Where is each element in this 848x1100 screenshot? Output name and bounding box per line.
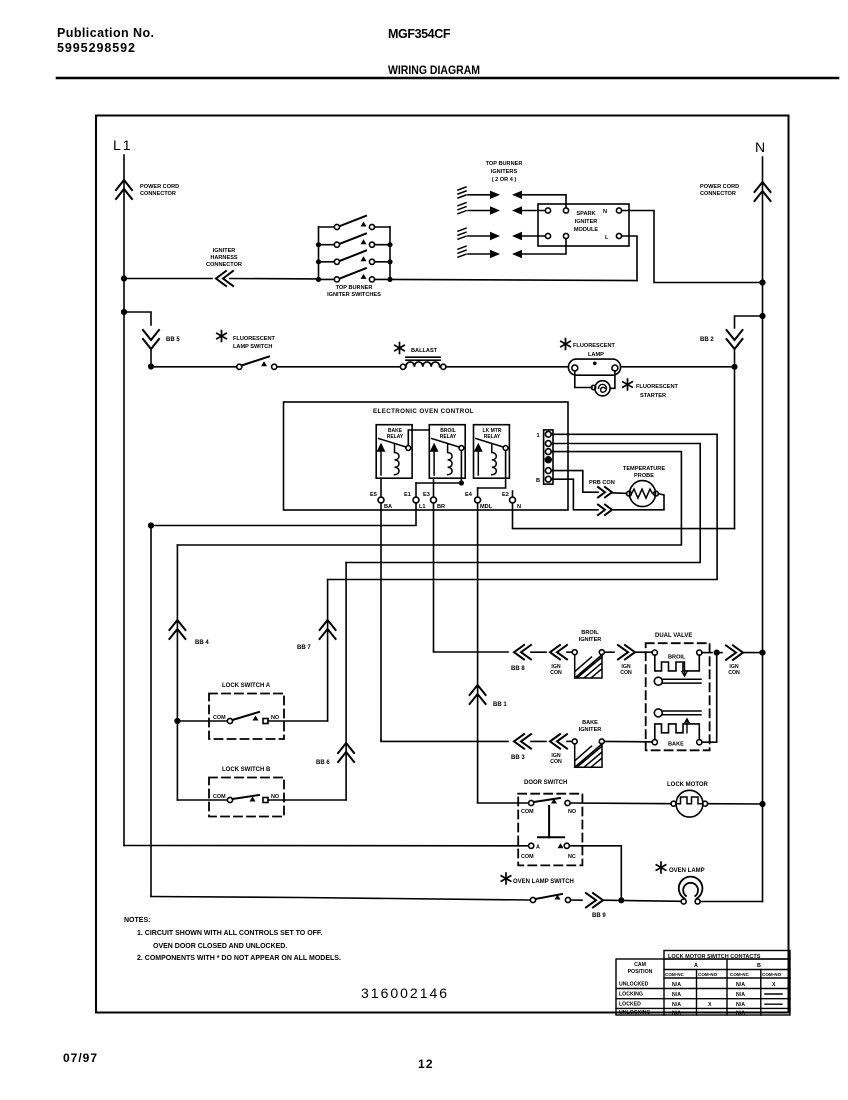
svg-text:N: N xyxy=(517,504,521,510)
svg-text:N/A: N/A xyxy=(672,982,681,988)
svg-text:LOCK SWITCH B: LOCK SWITCH B xyxy=(222,767,271,773)
svg-text:BAKE: BAKE xyxy=(582,720,598,726)
svg-text:( 2 OR 4 ): ( 2 OR 4 ) xyxy=(492,177,517,183)
svg-text:E2: E2 xyxy=(502,492,509,498)
svg-text:COM: COM xyxy=(213,794,226,800)
svg-text:B: B xyxy=(536,478,540,484)
svg-text:E1: E1 xyxy=(404,492,411,498)
svg-text:1: 1 xyxy=(537,433,540,439)
svg-text:N/A: N/A xyxy=(736,982,745,988)
svg-text:X: X xyxy=(708,1002,712,1008)
svg-text:BB 7: BB 7 xyxy=(297,645,311,651)
svg-text:DOOR SWITCH: DOOR SWITCH xyxy=(524,780,567,786)
svg-text:BALLAST: BALLAST xyxy=(411,348,438,354)
svg-text:LAMP SWITCH: LAMP SWITCH xyxy=(233,344,272,350)
svg-text:B: B xyxy=(757,963,761,969)
svg-text:ELECTRONIC OVEN CONTROL: ELECTRONIC OVEN CONTROL xyxy=(373,408,474,415)
svg-text:BR: BR xyxy=(437,504,445,510)
svg-text:BB 1: BB 1 xyxy=(493,702,507,708)
svg-text:12: 12 xyxy=(418,1057,433,1071)
svg-text:BROIL: BROIL xyxy=(581,630,599,636)
svg-text:LOCKING: LOCKING xyxy=(619,992,643,998)
svg-text:OVEN LAMP: OVEN LAMP xyxy=(669,868,705,874)
svg-text:E4: E4 xyxy=(465,492,473,498)
svg-text:NO: NO xyxy=(271,794,279,800)
svg-text:CON: CON xyxy=(620,670,632,676)
svg-text:N/A: N/A xyxy=(736,992,745,998)
svg-text:L1: L1 xyxy=(419,504,426,510)
svg-text:Publication No.: Publication No. xyxy=(57,26,154,40)
svg-text:CON: CON xyxy=(550,670,562,676)
svg-text:UNLOCKING: UNLOCKING xyxy=(619,1010,650,1016)
svg-text:2. COMPONENTS WITH * DO NOT: 2. COMPONENTS WITH * DO NOT APPEAR ON AL… xyxy=(137,955,341,962)
svg-text:COM-NC: COM-NC xyxy=(730,972,750,977)
svg-text:N/A: N/A xyxy=(736,1002,745,1008)
svg-text:X: X xyxy=(772,982,776,988)
svg-text:IGNITER: IGNITER xyxy=(579,727,602,733)
svg-text:IGNITER SWITCHES: IGNITER SWITCHES xyxy=(327,292,381,298)
svg-text:NOTES:: NOTES: xyxy=(124,917,150,924)
svg-text:BB 6: BB 6 xyxy=(316,760,330,766)
svg-text:BAKE: BAKE xyxy=(668,742,684,748)
svg-text:FLUORESCENT: FLUORESCENT xyxy=(233,336,276,342)
svg-text:FLUORESCENT: FLUORESCENT xyxy=(573,343,616,349)
svg-text:MODULE: MODULE xyxy=(574,227,599,233)
svg-text:L: L xyxy=(605,235,609,241)
svg-text:IGNITERS: IGNITERS xyxy=(491,169,518,175)
svg-text:PRB CON: PRB CON xyxy=(589,480,615,486)
svg-text:CONNECTOR: CONNECTOR xyxy=(700,191,736,197)
svg-text:MDL: MDL xyxy=(480,504,493,510)
svg-text:N/A: N/A xyxy=(672,1011,681,1017)
svg-text:N/A: N/A xyxy=(672,992,681,998)
svg-text:N/A: N/A xyxy=(672,1002,681,1008)
svg-text:1. CIRCUIT SHOWN WITH ALL CON: 1. CIRCUIT SHOWN WITH ALL CONTROLS SET T… xyxy=(137,930,322,937)
svg-text:CONNECTOR: CONNECTOR xyxy=(206,262,242,268)
svg-text:TOP BURNER: TOP BURNER xyxy=(486,161,523,167)
svg-text:N: N xyxy=(755,139,765,155)
svg-text:MGF354CF: MGF354CF xyxy=(388,27,451,41)
svg-text:BB 9: BB 9 xyxy=(592,913,606,919)
svg-text:NO: NO xyxy=(271,715,279,721)
svg-text:BB 5: BB 5 xyxy=(166,337,180,343)
svg-text:RELAY: RELAY xyxy=(484,434,501,440)
svg-text:TEMPERATURE: TEMPERATURE xyxy=(623,466,665,472)
svg-text:CONNECTOR: CONNECTOR xyxy=(140,191,176,197)
svg-text:POWER CORD: POWER CORD xyxy=(140,184,179,190)
svg-text:OVEN DOOR CLOSED AND UNLOCKED.: OVEN DOOR CLOSED AND UNLOCKED. xyxy=(153,943,287,950)
svg-text:COM: COM xyxy=(213,715,226,721)
svg-text:POWER CORD: POWER CORD xyxy=(700,184,739,190)
svg-text:HARNESS: HARNESS xyxy=(210,255,238,261)
svg-text:L1: L1 xyxy=(113,137,133,153)
svg-text:N: N xyxy=(603,209,607,215)
svg-text:BB 3: BB 3 xyxy=(511,755,525,761)
svg-text:COM-NO: COM-NO xyxy=(698,972,718,977)
svg-text:LAMP: LAMP xyxy=(588,352,604,358)
svg-text:LOCK MOTOR: LOCK MOTOR xyxy=(667,782,709,788)
svg-text:CON: CON xyxy=(728,670,740,676)
svg-text:E5: E5 xyxy=(370,492,377,498)
svg-text:COM-NC: COM-NC xyxy=(665,972,685,977)
svg-text:NC: NC xyxy=(568,854,576,860)
svg-text:IGNITER: IGNITER xyxy=(213,248,236,254)
svg-text:RELAY: RELAY xyxy=(440,434,457,440)
svg-text:E3: E3 xyxy=(423,492,430,498)
svg-text:CAM: CAM xyxy=(634,962,646,968)
svg-text:BA: BA xyxy=(384,504,392,510)
svg-text:TOP BURNER: TOP BURNER xyxy=(336,285,373,291)
svg-text:PROBE: PROBE xyxy=(634,473,654,479)
svg-text:LOCKED: LOCKED xyxy=(619,1002,641,1008)
svg-text:SPARK: SPARK xyxy=(576,211,595,217)
svg-text:5995298592: 5995298592 xyxy=(57,41,135,55)
svg-text:NO: NO xyxy=(568,809,576,815)
svg-text:POSITION: POSITION xyxy=(628,969,653,975)
svg-text:IGNITER: IGNITER xyxy=(579,637,602,643)
svg-text:OVEN LAMP SWITCH: OVEN LAMP SWITCH xyxy=(513,879,574,885)
svg-text:COM: COM xyxy=(521,854,534,860)
svg-text:LOCK SWITCH A: LOCK SWITCH A xyxy=(222,683,271,689)
svg-text:A: A xyxy=(694,963,698,969)
svg-text:UNLOCKED: UNLOCKED xyxy=(619,982,649,988)
svg-text:BB 8: BB 8 xyxy=(511,666,525,672)
svg-text:COM: COM xyxy=(521,809,534,815)
svg-text:FLUORESCENT: FLUORESCENT xyxy=(636,384,679,390)
svg-text:316002146: 316002146 xyxy=(361,985,449,1001)
svg-text:IGNITER: IGNITER xyxy=(575,219,598,225)
svg-text:COM-NO: COM-NO xyxy=(762,972,782,977)
svg-text:N/A: N/A xyxy=(736,1011,745,1017)
svg-text:STARTER: STARTER xyxy=(640,393,666,399)
svg-text:07/97: 07/97 xyxy=(63,1051,97,1065)
svg-text:WIRING DIAGRAM: WIRING DIAGRAM xyxy=(388,63,480,77)
svg-text:DUAL VALVE: DUAL VALVE xyxy=(655,633,692,639)
svg-text:CON: CON xyxy=(550,759,562,765)
svg-text:RELAY: RELAY xyxy=(387,434,404,440)
svg-text:BB 4: BB 4 xyxy=(195,640,209,646)
svg-text:BROIL: BROIL xyxy=(668,655,686,661)
svg-text:BB 2: BB 2 xyxy=(700,337,714,343)
svg-text:A: A xyxy=(536,845,540,851)
